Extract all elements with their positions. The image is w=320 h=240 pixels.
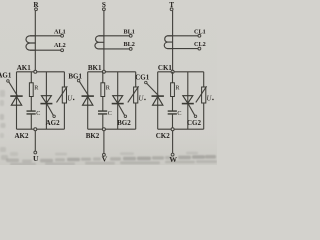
thyristor CG1 gate lead — [147, 83, 159, 96]
thyristor AG2 cathode bar — [40, 103, 52, 105]
label U subscript mark (B) — [144, 99, 145, 100]
node CK2 terminal circle — [171, 128, 174, 131]
node AG1 gate terminal circle — [7, 80, 9, 83]
thyristor CG1 triangle (pointing up) — [153, 97, 163, 106]
wire branch BG1 — [87, 72, 89, 129]
wire output V — [103, 131, 105, 154]
thyristor CG2 cathode bar — [182, 103, 194, 105]
wire branch varistor lower (B) — [135, 103, 137, 129]
inductor BL winding arcs — [95, 36, 104, 49]
thyristor AG1 triangle (pointing up) — [11, 97, 21, 106]
resistor R body (A) — [29, 83, 33, 97]
label U subscript mark (C) — [212, 99, 213, 100]
node CG1 gate terminal circle — [145, 81, 148, 84]
wire R to C (C) — [172, 97, 174, 112]
node CL1 terminal circle — [198, 34, 201, 37]
wire branch C lower (B) — [102, 114, 104, 129]
thyristor BG1 triangle (pointing up) — [83, 97, 93, 106]
node BK2 terminal circle — [102, 128, 105, 131]
node BK1 terminal circle — [102, 70, 105, 73]
node output U terminal circle — [34, 151, 37, 154]
thyristor BG2 gate lead — [118, 104, 125, 115]
node S phase terminal circle — [103, 8, 106, 11]
varistor diagonal stroke (B) — [128, 86, 139, 102]
node AG2 gate terminal circle — [53, 115, 56, 118]
thyristor BG2 triangle (pointing down) — [113, 96, 123, 104]
inductor AL winding arcs — [26, 36, 36, 50]
paper background — [0, 0, 217, 165]
wire tap BL2 — [99, 48, 130, 50]
wire branch BG2 — [117, 72, 119, 129]
node R phase terminal circle — [35, 8, 38, 11]
wire branch varistor upper (A) — [63, 72, 65, 87]
wire branch varistor lower (C) — [203, 103, 205, 129]
thyristor CG1 cathode bar — [152, 95, 164, 97]
paper shading overlay (decorative) — [0, 0, 217, 165]
node CG2 gate terminal circle — [194, 115, 197, 118]
thyristor BG2 cathode bar — [112, 103, 124, 105]
node output V terminal circle — [103, 153, 106, 156]
wire tap CL2 — [167, 48, 198, 50]
node BL1 terminal circle — [129, 34, 132, 37]
node CL2 terminal circle — [198, 47, 201, 50]
wire tap BL1 — [99, 35, 130, 37]
wire output W — [172, 131, 174, 154]
thyristor AG2 triangle (pointing down) — [41, 96, 51, 104]
resistor R body (C) — [171, 83, 175, 97]
wire top rail C — [158, 71, 204, 73]
varistor diagonal stroke (C) — [196, 86, 207, 102]
thyristor CG2 triangle (pointing down) — [183, 96, 193, 104]
wire branch AG2 — [45, 72, 47, 129]
wire branch CG1 — [157, 72, 159, 129]
thyristor AG1 cathode bar — [10, 95, 22, 97]
thyristor AG2 gate lead — [47, 104, 54, 115]
wire top rail B — [88, 71, 136, 73]
thyristor CG2 gate lead — [188, 104, 195, 115]
wire branch R upper (B) — [102, 72, 104, 83]
thyristor BG1 gate lead — [79, 81, 88, 95]
wire branch AG1 — [16, 72, 18, 129]
wire phase S vertical — [103, 11, 105, 72]
wire R to C (A) — [30, 97, 32, 112]
wire phase T vertical — [172, 11, 174, 72]
wire branch varistor lower (A) — [63, 103, 65, 129]
scan smudges left margin (decorative) — [0, 90, 5, 97]
wire R to C (B) — [102, 97, 104, 112]
capacitor C plates (B) — [98, 111, 107, 114]
node BL2 terminal circle — [129, 48, 132, 51]
wire bottom rail C — [158, 128, 204, 130]
resistor R body (B) — [101, 83, 105, 97]
wire tap CL1 — [167, 35, 198, 37]
varistor body (B) — [134, 87, 138, 103]
thyristor BG1 cathode bar — [82, 95, 94, 97]
wire branch R upper (C) — [172, 72, 174, 83]
wire branch CG2 — [187, 72, 189, 129]
node AL1 terminal circle — [61, 34, 64, 37]
capacitor C plates (A) — [27, 111, 36, 114]
wire branch varistor upper (C) — [203, 72, 205, 87]
wire bottom rail A — [17, 128, 65, 130]
node AL2 terminal circle — [61, 49, 64, 52]
wire branch C lower (C) — [172, 114, 174, 129]
varistor body (C) — [202, 87, 206, 103]
wire phase R vertical — [34, 11, 36, 72]
node output W terminal circle — [171, 153, 174, 156]
node T phase terminal circle — [170, 8, 173, 11]
varistor diagonal stroke (A) — [57, 86, 68, 102]
wire bottom rail B — [88, 128, 136, 130]
scan bleed-through smudges (decorative) — [6, 159, 19, 163]
capacitor C plates (C) — [168, 111, 177, 114]
node AK1 terminal circle — [34, 70, 37, 73]
label U subscript mark (A) — [73, 99, 74, 100]
wire branch varistor upper (B) — [135, 72, 137, 87]
wire branch R upper (A) — [30, 72, 32, 83]
node AK2 terminal circle — [34, 128, 37, 131]
wire top rail A — [17, 71, 65, 73]
wire branch C lower (A) — [30, 114, 32, 129]
node BG2 gate terminal circle — [124, 115, 127, 118]
thyristor AG1 gate lead — [9, 82, 18, 96]
wire tap AL2 — [30, 49, 61, 51]
wire tap AL1 — [30, 35, 61, 37]
node CK1 terminal circle — [171, 70, 174, 73]
node BG1 gate terminal circle — [77, 79, 80, 82]
inductor CL winding arcs — [164, 36, 173, 49]
varistor body (A) — [62, 87, 66, 103]
wire output U — [34, 131, 36, 151]
